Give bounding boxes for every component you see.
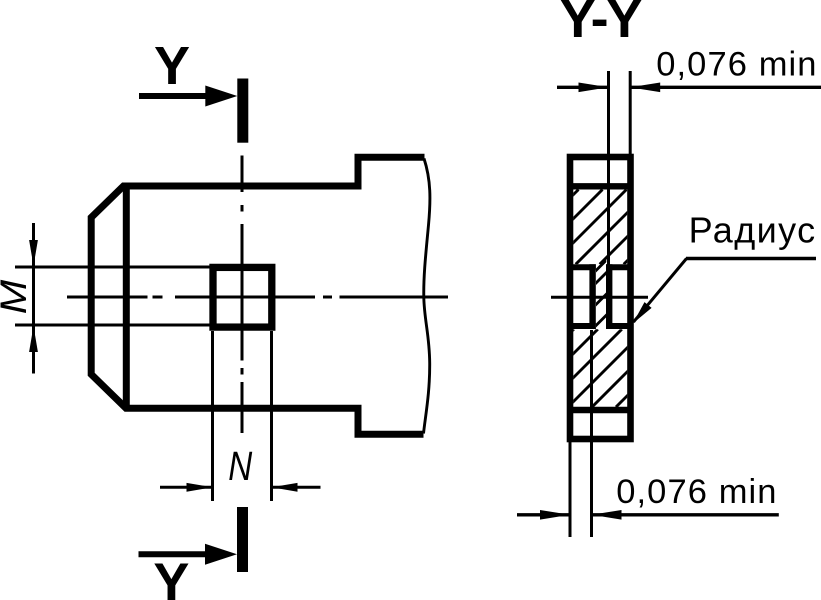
svg-text:0,076 min: 0,076 min [616,473,777,511]
bottom dimension line 0,076 min with arrows [517,510,779,520]
extension lines of top dimension [609,71,631,265]
keyway slot top edges [567,264,634,270]
horizontal centerline [67,296,448,299]
svg-text:Y-Y: Y-Y [560,0,643,49]
left view: shaft end outline [91,157,424,434]
extension lines of bottom dimension [570,330,592,537]
svg-text:Радиус: Радиус [689,210,817,251]
keyway slot bottom edges [567,323,634,329]
top cap inner line [567,183,634,189]
dimension M extension lines [15,267,210,325]
section horizontal centerline [551,296,648,299]
section outer rectangle [570,157,631,439]
svg-text:Y: Y [153,552,189,600]
leader line with arrow pointing to keyway corner radius [633,259,816,324]
dimension N dimension line with arrows [160,483,321,492]
hatching middle column [536,258,664,331]
section plane mark Y (top): bar, arrow and letter [139,36,248,143]
vertical centerline [241,156,244,434]
top dimension line 0,076 min with arrows [557,83,821,93]
hatching upper area [504,190,699,265]
svg-text:M: M [0,279,34,314]
dimension M dimension line with arrows [29,223,38,374]
svg-text:Y: Y [154,36,190,96]
dimension N extension lines [213,331,272,501]
break (wavy) line [424,159,430,434]
bottom cap inner line [567,407,634,413]
keyway slot side walls [593,264,610,329]
chamfer edge line [123,186,130,408]
hatching lower area [496,329,694,407]
svg-text:0,076 min: 0,076 min [656,45,817,83]
svg-text:N: N [228,443,252,489]
section plane mark Y (bottom): bar, arrow and letter [139,507,249,600]
keyway square hole [213,267,272,327]
